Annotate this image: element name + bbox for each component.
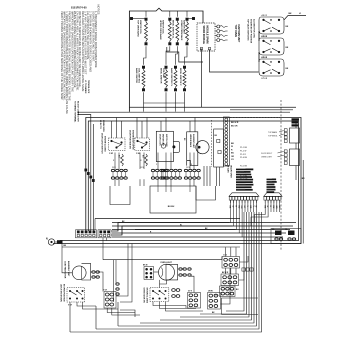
wire P2 drops [265,200,280,212]
wire bottom links [62,241,248,307]
ignitor coil BROIL IGNITOR C [179,66,186,91]
connector oven light left [143,264,154,279]
svg-text:3: 3 [191,164,192,166]
wire cluster stubs [225,247,236,286]
labels P3 right [231,122,239,161]
svg-text:BU BU: BU BU [168,206,175,208]
terminal N circle [46,239,57,246]
wire valve links [258,31,260,41]
label drop marks [113,160,192,166]
svg-text:1 2 3: 1 2 3 [186,167,190,169]
svg-text:P2-1 BK: P2-1 BK [240,166,248,168]
connector box P3 left [214,129,224,167]
spark module U1 [197,23,215,51]
connector strip right lower [284,149,299,166]
wire coils to bottom [143,92,145,111]
dashed line mid [211,120,213,167]
svg-text:L1: L1 [299,13,301,15]
svg-text:TO RANGE TERMINAL: TO RANGE TERMINAL [73,101,76,123]
labels terminals [112,167,190,169]
plug door lock [172,142,179,153]
svg-text:DOOR LOCK: DOOR LOCK [159,134,161,146]
svg-text:SHOWN IN OFF POSITION: SHOWN IN OFF POSITION [250,19,252,44]
svg-text:OVEN DOOR SW: OVEN DOOR SW [142,288,144,303]
wire mid frame 1 [110,186,130,205]
wire P1 drops [231,200,257,212]
small box trio [242,268,253,271]
motor conv fan M3 [64,261,91,280]
dashed chassis line [280,100,282,250]
svg-text:W: W [231,146,233,148]
svg-text:BU OR: BU OR [231,125,238,127]
node terminal right [192,17,194,19]
wire middle drops [115,153,194,187]
svg-text:2: 2 [141,160,142,162]
terminals right of A [116,283,119,295]
svg-text:HI GAS: HI GAS [226,165,229,173]
wire component stubs [112,118,196,139]
wire third bus [78,115,91,232]
svg-text:L1 TO RANGE: L1 TO RANGE [84,80,87,94]
svg-text:SHOWN DOOR OPEN: SHOWN DOOR OPEN [132,130,134,150]
svg-text:TOP BROIL: TOP BROIL [268,135,278,137]
wire mid frame 3 [196,186,216,200]
wire mid bus b [230,109,293,111]
svg-text:1: 1 [156,164,157,166]
connector band row B [98,230,111,238]
terminal cluster B [188,290,201,308]
svg-text:BAKE IGNITOR CL: BAKE IGNITOR CL [170,68,173,87]
svg-text:BROIL IGNITOR C: BROIL IGNITOR C [179,68,181,86]
switch door latch mid [109,138,126,155]
lamp oven light DS1 [159,262,178,280]
notice text block [60,5,101,115]
svg-text:1 2 3: 1 2 3 [140,167,144,169]
svg-text:8101P574-60: 8101P574-60 [71,6,87,10]
connector band row A [76,230,97,238]
svg-text:BK W: BK W [143,264,148,266]
valve switch SW2 [259,35,284,59]
wire A verticals [114,260,117,302]
labels wire list lower [240,166,248,181]
terminal cluster E [221,272,239,286]
spark gap electrodes [215,25,227,42]
terminal cluster C [208,290,221,314]
svg-text:IGNITOR UNIT: IGNITOR UNIT [183,20,185,35]
svg-text:OVEN LIGHT: OVEN LIGHT [261,157,273,159]
svg-text:TERM BLOCK: TERM BLOCK [87,80,89,94]
svg-text:ASSEMBLY UNIT: ASSEMBLY UNIT [67,261,70,277]
wire nest bottom right [70,212,262,332]
labels right upper [268,131,284,138]
svg-text:4 3 2 1: 4 3 2 1 [262,56,268,59]
wire BK from valve switch [284,16,306,20]
junction blob [57,240,63,244]
svg-text:4 3 2 1: 4 3 2 1 [262,35,268,38]
ignitor coil UPPER OVEN BAKE [159,18,171,45]
wire P2 bends [251,212,268,226]
svg-text:OR W: OR W [208,290,213,292]
svg-text:MOTOR UNIT: MOTOR UNIT [162,134,164,147]
svg-text:4 3 2 1: 4 3 2 1 [262,14,268,17]
wire inner bus [144,102,185,104]
svg-text:BK: BK [289,13,293,15]
label band BK marks [122,221,208,233]
wire frame inner [60,121,299,241]
svg-text:VALVE UNIT: VALVE UNIT [229,165,232,178]
svg-text:SPARK MOD: SPARK MOD [102,120,105,132]
wire coil box border [129,8,203,112]
ignitor coil LOWER OVEN BAKE [180,18,188,45]
wire fourth [92,124,94,231]
node terminal left [130,17,132,19]
connector strip right upper [284,128,299,143]
svg-text:P1-2 W: P1-2 W [240,150,247,152]
svg-text:CONV FAN MOTOR: CONV FAN MOTOR [64,261,67,279]
wire mid verticals [204,166,220,186]
terminals conv fan [92,271,100,278]
motor hidden bake M2 [187,132,209,166]
wire staircase routing [231,212,243,237]
svg-text:SPARK MODULE: SPARK MODULE [202,26,205,45]
svg-text:BK W R: BK W R [231,122,239,124]
svg-text:P1-4 BU: P1-4 BU [240,157,248,159]
svg-text:BROIL IGNITOR CL: BROIL IGNITOR CL [172,20,174,39]
relay box right [271,229,301,244]
svg-text:IGNITOR COIL: IGNITOR COIL [139,20,141,35]
wire long bottom bus [103,259,222,261]
svg-text:2: 2 [113,160,114,162]
connector P1 block [236,169,253,191]
svg-text:BLOCK CONNECTOR: BLOCK CONNECTOR [76,101,78,122]
wire dashed segment [230,117,280,119]
terminals door sw right [172,289,180,298]
label BK/W L2 [292,118,300,120]
wire frame outer [53,118,301,244]
labels right lower [261,152,284,159]
wire coil box bottom [78,111,291,113]
wire row2 bus [130,106,296,108]
svg-text:(CLOSED FOR LITE): (CLOSED FOR LITE) [253,19,255,38]
ignitor coil BROIL IGNITOR CL [172,18,179,45]
svg-text:OVEN LIGHT: OVEN LIGHT [160,262,172,264]
ignitor coil BROIL IGNITOR [160,66,168,91]
ignitor coil TOP OVEN BAKE [137,18,148,45]
svg-text:SHOWN CLOSED: SHOWN CLOSED [145,288,147,304]
svg-text:HIDDEN BAKE: HIDDEN BAKE [189,134,192,148]
wire harness band [95,219,296,238]
ignitor coil BAKE IGNITOR CL [170,66,177,91]
terminal cluster A [103,289,116,308]
svg-text:ELEMENT UNIT: ELEMENT UNIT [192,134,194,149]
wire coil row links [144,46,147,65]
svg-text:LATCH SW SHOWN: LATCH SW SHOWN [59,284,62,302]
svg-text:MODULE SPARK: MODULE SPARK [206,26,209,45]
svg-text:TOP OVEN: TOP OVEN [234,25,237,38]
switch oven door bottom [142,288,169,304]
svg-text:IGNITORS UNIT: IGNITORS UNIT [237,25,240,43]
svg-text:COIL UNIT: COIL UNIT [162,68,164,79]
wire bottom drops [70,302,135,332]
svg-text:TOP VALVE SWITCHES: TOP VALVE SWITCHES [247,19,250,41]
wire spark module L to valves [210,50,259,72]
wire mid frame 2 [150,186,196,213]
svg-text:L1 BK TO: L1 BK TO [99,120,101,129]
terminals oven light right [179,268,191,276]
valve switch SW3 [259,56,284,80]
svg-text:SHOWN CLOSED: SHOWN CLOSED [104,136,106,152]
wire bottom routing extra [83,302,204,315]
wire right inner verticals [296,121,303,244]
svg-text:VERIFY PROPER OPERATION AFTER: VERIFY PROPER OPERATION AFTER SERVICING … [60,11,64,100]
wire s-bend [167,47,203,62]
connector P3 pins [223,117,229,166]
wire oval links [113,172,199,177]
svg-text:TOP BAKE: TOP BAKE [268,131,278,134]
wire band fan links [95,219,236,244]
node bundle labels [85,169,95,182]
svg-text:DOOR POSITION SW: DOOR POSITION SW [129,130,131,149]
terminal cluster D [222,254,240,268]
svg-text:DOOR SW LT: DOOR SW LT [261,153,273,155]
svg-text:P1-3 R: P1-3 R [240,154,247,156]
switch door latch bottom [59,284,84,307]
valve switch SW1 [259,14,284,38]
labels wire list upper [240,147,248,159]
svg-text:IN OPEN POSITION: IN OPEN POSITION [63,284,65,302]
svg-text:IGNITOR COIL: IGNITOR COIL [162,20,164,35]
inline terminals rows [111,169,200,179]
labels pin codes P2 [263,206,280,209]
svg-text:1 2 3: 1 2 3 [223,254,227,256]
wire coil top stubs [133,11,193,19]
svg-text:COIL UNIT NO1: COIL UNIT NO1 [138,68,140,84]
motor door lock M1 [156,131,173,161]
labels pin codes P1 [229,206,257,209]
svg-text:BROIL IGNITOR: BROIL IGNITOR [160,68,162,84]
terminal cluster F [220,286,240,297]
connector P2 block [267,179,277,194]
svg-text:8 7 6 5: 8 7 6 5 [262,78,268,80]
wire spark module N down [201,50,203,107]
wire band left links [112,223,235,236]
coil latch 2 [145,154,148,166]
coil latch 1 [121,154,124,166]
svg-text:DOOR LATCH SWITCH: DOOR LATCH SWITCH [100,133,103,154]
ignitor coil BAKE IGNITOR [135,66,145,91]
switch door position [135,138,150,155]
wire box bottom mid [222,298,259,315]
svg-text:P1-1 BK: P1-1 BK [240,147,248,149]
